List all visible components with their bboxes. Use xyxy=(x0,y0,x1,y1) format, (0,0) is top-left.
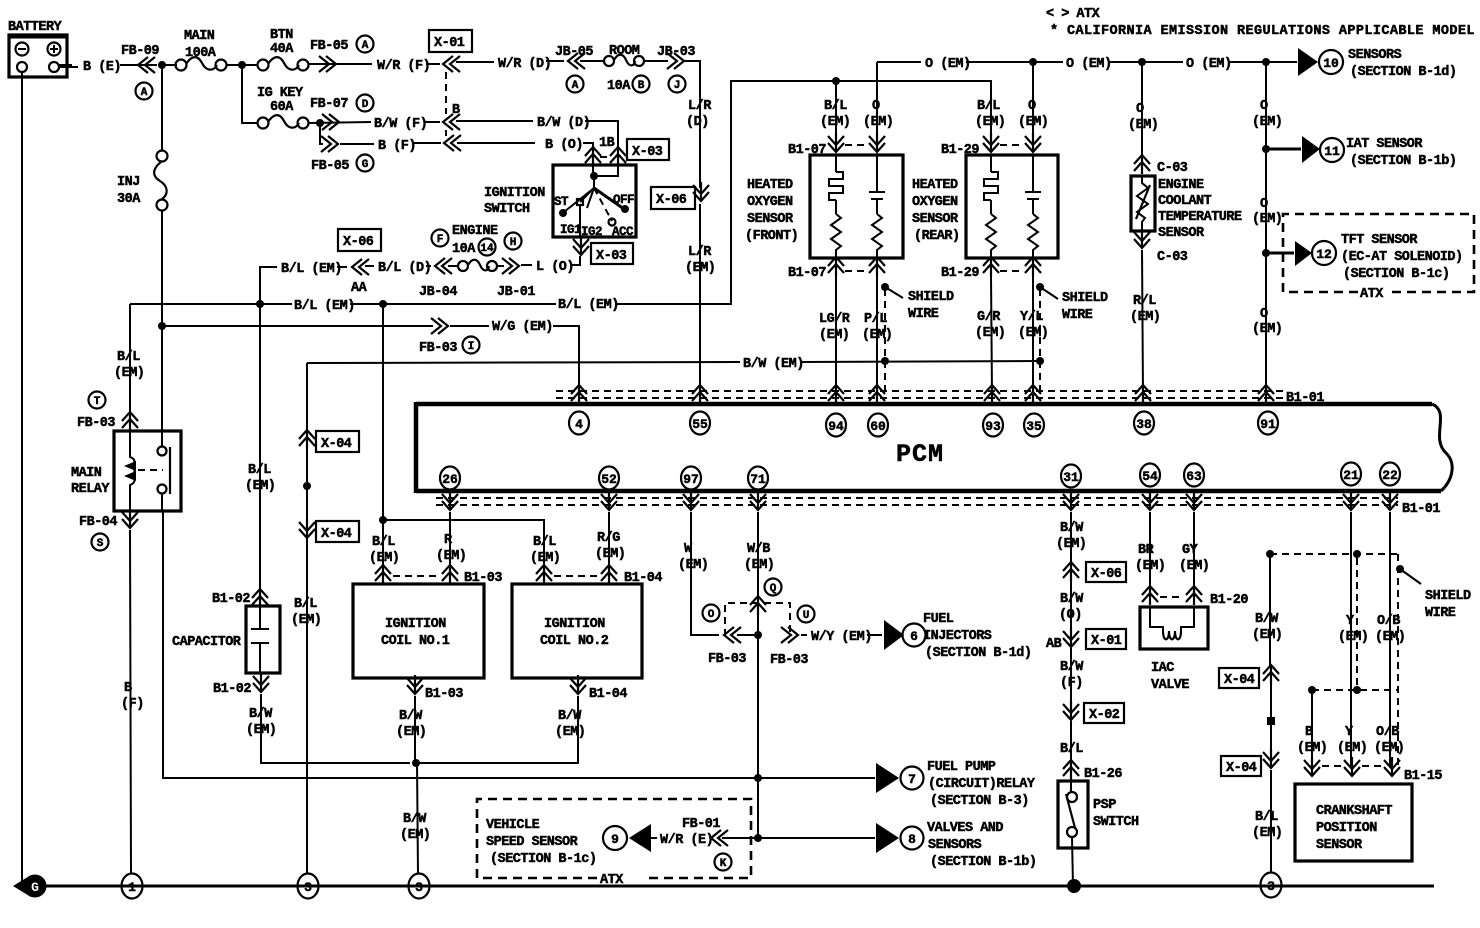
connector FB-03 arrow xyxy=(122,412,138,431)
pin 4 xyxy=(571,385,587,404)
svg-text:B1-07: B1-07 xyxy=(788,266,826,281)
svg-text:(EC-AT SOLENOID): (EC-AT SOLENOID) xyxy=(1341,250,1463,265)
PSP switch column xyxy=(1046,512,1139,893)
svg-text:IAC: IAC xyxy=(1151,661,1174,676)
svg-text:(EM): (EM) xyxy=(1135,559,1165,574)
svg-text:B/W: B/W xyxy=(1255,612,1279,627)
wire O (EM) to IAT junction xyxy=(1265,62,1267,149)
svg-text:94: 94 xyxy=(828,419,844,434)
svg-text:60: 60 xyxy=(870,419,886,434)
svg-text:< > ATX: < > ATX xyxy=(1046,7,1101,22)
svg-text:B/W: B/W xyxy=(558,709,582,724)
wire W (EM) pin 97 xyxy=(691,512,719,635)
wire O (EM) drop front xyxy=(876,62,878,141)
svg-text:GY: GY xyxy=(1182,543,1199,558)
svg-text:JB-04: JB-04 xyxy=(419,285,457,300)
svg-text:L/R: L/R xyxy=(688,245,712,260)
svg-text:52: 52 xyxy=(601,472,617,487)
svg-text:POSITION: POSITION xyxy=(1316,821,1377,836)
svg-text:6: 6 xyxy=(910,629,918,644)
svg-text:P/L: P/L xyxy=(864,312,887,327)
node A circle xyxy=(136,83,153,100)
wire LG/R (EM) to pin 94 xyxy=(835,276,837,394)
svg-text:L/R: L/R xyxy=(688,99,712,114)
svg-text:SENSOR: SENSOR xyxy=(747,212,794,227)
pin 38 xyxy=(1135,385,1151,404)
svg-text:COOLANT: COOLANT xyxy=(1158,194,1212,209)
svg-text:X-04: X-04 xyxy=(1224,673,1255,688)
svg-text:O: O xyxy=(1136,102,1144,117)
svg-text:FB-09: FB-09 xyxy=(121,44,159,59)
wire O (EM) to TFT junction xyxy=(1265,149,1267,253)
svg-text:WIRE: WIRE xyxy=(1425,606,1456,621)
svg-text:ACC: ACC xyxy=(612,225,634,239)
fuse BTN 40A xyxy=(258,60,269,71)
capacitor CAPACITOR xyxy=(172,304,410,763)
svg-text:PCM: PCM xyxy=(896,440,944,469)
svg-text:3: 3 xyxy=(415,880,423,895)
svg-text:B/W: B/W xyxy=(1060,521,1084,536)
connector X-01 pin xyxy=(443,56,460,72)
node O circle xyxy=(703,605,720,622)
sensor cell front xyxy=(869,155,885,214)
svg-text:54: 54 xyxy=(1142,469,1158,484)
crankshaft position sensor xyxy=(1295,512,1442,861)
connector X-03 top arrows xyxy=(585,147,601,166)
connector FB-09 xyxy=(138,57,155,73)
svg-text:3: 3 xyxy=(1267,879,1275,894)
svg-text:97: 97 xyxy=(683,472,699,487)
svg-text:X-04: X-04 xyxy=(321,437,352,452)
svg-text:(EM): (EM) xyxy=(1297,741,1327,756)
pin 26 xyxy=(440,467,460,490)
junction injector feed xyxy=(754,631,762,639)
fuel pump relay line xyxy=(754,635,1036,838)
svg-text:(EM): (EM) xyxy=(1128,118,1158,133)
svg-text:(EM): (EM) xyxy=(1252,115,1282,130)
heated oxygen sensor (rear) xyxy=(835,62,1108,394)
junction splice xyxy=(303,482,311,490)
svg-text:(EM): (EM) xyxy=(863,115,893,130)
junction coil 2 branch xyxy=(379,516,387,524)
svg-text:TEMPERATURE: TEMPERATURE xyxy=(1158,210,1242,225)
svg-text:B/L: B/L xyxy=(533,535,556,550)
svg-text:FB-03: FB-03 xyxy=(419,341,457,356)
junction IAT xyxy=(1262,145,1270,153)
svg-text:WIRE: WIRE xyxy=(908,307,939,322)
shield wire rear xyxy=(1036,283,1044,291)
relay contact xyxy=(138,469,163,471)
svg-text:(FRONT): (FRONT) xyxy=(745,229,798,244)
right shield drain B/W xyxy=(1219,550,1471,872)
svg-text:4: 4 xyxy=(575,417,583,432)
svg-text:INJ: INJ xyxy=(117,175,140,190)
svg-text:B: B xyxy=(1305,725,1313,740)
svg-text:B1-01: B1-01 xyxy=(1402,502,1440,517)
svg-text:B1-20: B1-20 xyxy=(1210,593,1248,608)
pin 31 xyxy=(1061,465,1081,488)
svg-text:B: B xyxy=(452,103,460,118)
svg-text:(EM): (EM) xyxy=(1252,212,1282,227)
svg-text:SWITCH: SWITCH xyxy=(1093,815,1139,830)
svg-text:(EM): (EM) xyxy=(246,723,276,738)
svg-text:91: 91 xyxy=(1260,417,1276,432)
svg-text:X-06: X-06 xyxy=(343,235,374,250)
engine fuse row: B/L (D) to L (O) xyxy=(260,224,633,305)
svg-text:B (E): B (E) xyxy=(83,60,121,75)
svg-text:D: D xyxy=(362,99,369,111)
connector JB-05 xyxy=(568,53,585,69)
svg-text:S: S xyxy=(97,538,104,550)
connector X-03 bottom xyxy=(573,236,589,255)
connector FB-01 xyxy=(711,830,728,846)
wire B/L (EM) row xyxy=(130,303,292,305)
svg-text:(EM): (EM) xyxy=(595,547,625,562)
svg-text:(EM): (EM) xyxy=(396,725,426,740)
svg-text:(EM): (EM) xyxy=(1018,326,1048,341)
TFT dashed box ATX xyxy=(1283,214,1474,292)
shield dashed bus lower xyxy=(1312,689,1398,691)
pin 55 xyxy=(692,385,708,404)
svg-text:1: 1 xyxy=(128,880,136,895)
svg-text:W/B: W/B xyxy=(747,542,770,557)
svg-text:J: J xyxy=(674,80,681,92)
svg-text:W/R (D): W/R (D) xyxy=(498,57,551,72)
wire W/R (F) xyxy=(309,63,372,65)
svg-text:(EM): (EM) xyxy=(1130,310,1160,325)
shield dashed O/B xyxy=(1397,554,1399,766)
wire W/R (D) xyxy=(456,61,494,63)
junction PSP ground xyxy=(1067,879,1081,893)
wire B/L (EM) to ground 3 xyxy=(1270,770,1272,872)
wire R (EM) pin 26 to coil 1 xyxy=(449,512,451,569)
svg-text:IGNITION: IGNITION xyxy=(484,186,545,201)
connector X-02 arrow xyxy=(1063,701,1079,720)
svg-text:BATTERY: BATTERY xyxy=(8,20,63,35)
ignition coil no.2 box xyxy=(512,584,642,678)
svg-text:O (EM): O (EM) xyxy=(925,57,971,72)
svg-text:B/W: B/W xyxy=(1060,592,1084,607)
main relay MAIN RELAY xyxy=(71,392,875,875)
svg-text:FB-05: FB-05 xyxy=(310,39,348,54)
fuse INJ 30A xyxy=(157,151,168,162)
wire to W/G junction and relay xyxy=(161,211,163,447)
svg-text:FB-01: FB-01 xyxy=(682,817,720,832)
fuse ENGINE 10A xyxy=(458,261,468,271)
svg-text:(EM): (EM) xyxy=(685,261,715,276)
svg-text:X-03: X-03 xyxy=(596,249,627,264)
svg-text:(EM): (EM) xyxy=(1018,115,1048,130)
connector B1-02 arrow xyxy=(252,589,268,608)
svg-text:21: 21 xyxy=(1343,468,1359,483)
svg-text:CRANKSHAFT: CRANKSHAFT xyxy=(1316,804,1392,819)
svg-text:O: O xyxy=(1260,197,1268,212)
svg-text:ATX: ATX xyxy=(1360,287,1384,302)
connector B1-03 arrows xyxy=(375,565,391,584)
node D circle xyxy=(357,95,374,112)
svg-text:7: 7 xyxy=(908,772,916,787)
connector B1-20 arrows xyxy=(1142,586,1158,605)
svg-text:OXYGEN: OXYGEN xyxy=(747,195,793,210)
svg-text:IAT SENSOR: IAT SENSOR xyxy=(1346,137,1423,152)
svg-text:(EM): (EM) xyxy=(744,558,774,573)
battery xyxy=(9,35,67,77)
svg-text:AB: AB xyxy=(1046,637,1062,652)
svg-text:G: G xyxy=(362,159,369,171)
pin 63 xyxy=(1184,464,1204,487)
wire B/W (EM) pin 31 xyxy=(1070,512,1072,566)
wire B/W (EM) to ground 3 xyxy=(417,763,418,874)
svg-text:(SECTION B-1c): (SECTION B-1c) xyxy=(490,852,596,867)
svg-text:(EM): (EM) xyxy=(1252,826,1282,841)
svg-text:JB-01: JB-01 xyxy=(497,285,535,300)
wire B/L (EM) riser xyxy=(260,267,277,305)
svg-text:OXYGEN: OXYGEN xyxy=(912,195,958,210)
svg-text:B: B xyxy=(638,80,645,92)
svg-text:ST: ST xyxy=(554,195,569,209)
svg-text:(SECTION B-1b): (SECTION B-1b) xyxy=(930,855,1036,870)
svg-text:AA: AA xyxy=(351,281,368,296)
svg-text:FUEL: FUEL xyxy=(923,612,954,627)
wire B/W (EM) to coil ground rail xyxy=(261,694,410,763)
svg-text:B/W (D): B/W (D) xyxy=(537,116,590,131)
svg-text:G: G xyxy=(31,880,39,895)
node A circle xyxy=(567,76,584,93)
wire to relay coil xyxy=(129,304,131,414)
shield pointer xyxy=(1396,565,1404,573)
switch internals xyxy=(593,165,618,176)
svg-text:(EM): (EM) xyxy=(820,115,850,130)
ground node 3 capacitor/shield xyxy=(298,874,319,899)
net O (EM) distribution xyxy=(877,48,1474,394)
svg-text:(EM): (EM) xyxy=(862,328,892,343)
svg-text:COIL NO.2: COIL NO.2 xyxy=(540,634,609,649)
svg-text:(EM): (EM) xyxy=(369,551,399,566)
svg-text:A: A xyxy=(362,40,369,52)
svg-text:(EM): (EM) xyxy=(975,115,1005,130)
svg-text:FB-03: FB-03 xyxy=(77,416,115,431)
junction W/B with relay output xyxy=(754,774,762,782)
wire B/L (EM) heater feed front xyxy=(832,77,840,85)
svg-text:Q: Q xyxy=(770,583,777,595)
wire GY (EM) pin 63 xyxy=(1193,512,1195,590)
IG KEY branch xyxy=(242,65,535,174)
svg-text:COIL NO.1: COIL NO.1 xyxy=(381,634,450,649)
svg-text:CAPACITOR: CAPACITOR xyxy=(172,635,242,650)
ECT box xyxy=(1131,176,1155,231)
svg-text:(SECTION B-1d): (SECTION B-1d) xyxy=(925,646,1031,661)
node K circle xyxy=(715,854,732,871)
svg-text:W/R (E): W/R (E) xyxy=(660,833,713,848)
svg-text:O: O xyxy=(1260,307,1268,322)
junction FB-09 node xyxy=(158,61,166,69)
svg-text:(D): (D) xyxy=(686,115,709,130)
connector X-04 arrow up xyxy=(299,430,315,449)
svg-text:TFT SENSOR: TFT SENSOR xyxy=(1341,233,1418,248)
svg-text:(EM): (EM) xyxy=(819,328,849,343)
svg-text:40A: 40A xyxy=(270,42,294,57)
arrow 7 FUEL PUMP xyxy=(876,763,899,793)
svg-text:O: O xyxy=(1260,99,1268,114)
heated oxygen sensor (front) xyxy=(745,62,954,394)
svg-text:ROOM: ROOM xyxy=(609,44,640,59)
svg-text:B/L: B/L xyxy=(824,99,847,114)
svg-text:MAIN: MAIN xyxy=(71,466,102,481)
svg-text:(REAR): (REAR) xyxy=(914,229,960,244)
svg-text:B (F): B (F) xyxy=(378,139,416,154)
svg-text:(SECTION B-3): (SECTION B-3) xyxy=(930,794,1029,809)
svg-text:W/Y (EM): W/Y (EM) xyxy=(811,630,872,645)
arrow 12 TFT SENSOR xyxy=(1266,252,1294,255)
svg-text:O/B: O/B xyxy=(1377,614,1400,629)
svg-text:93: 93 xyxy=(985,419,1001,434)
svg-text:SENSORS: SENSORS xyxy=(1348,48,1402,63)
svg-text:60A: 60A xyxy=(270,100,294,115)
svg-text:B/L: B/L xyxy=(1255,810,1278,825)
svg-text:B/W: B/W xyxy=(1060,660,1084,675)
connector X-01 pin B/W xyxy=(443,114,460,130)
arrow 9 to VSS xyxy=(603,826,627,850)
svg-text:RELAY: RELAY xyxy=(71,482,110,497)
svg-text:(EM): (EM) xyxy=(1338,630,1368,645)
wire Y (EM) pin 21 xyxy=(1350,512,1352,766)
svg-text:B1-26: B1-26 xyxy=(1084,767,1122,782)
svg-text:INJECTORS: INJECTORS xyxy=(923,629,992,644)
svg-text:B1-04: B1-04 xyxy=(589,687,627,702)
svg-text:(EM): (EM) xyxy=(1252,628,1282,643)
wire down to ground 3 xyxy=(306,363,308,874)
pin 94 xyxy=(828,385,844,404)
svg-text:ENGINE: ENGINE xyxy=(1158,178,1204,193)
svg-text:10A: 10A xyxy=(607,79,631,94)
svg-text:G/R: G/R xyxy=(977,310,1001,325)
dashed connector outline xyxy=(725,603,790,636)
svg-text:MAIN: MAIN xyxy=(184,29,215,44)
pin 91 xyxy=(1258,385,1274,404)
connector X-04 arrow down xyxy=(1263,749,1279,768)
svg-text:SHIELD: SHIELD xyxy=(1425,589,1471,604)
svg-text:B (O): B (O) xyxy=(545,138,583,153)
node I circle xyxy=(463,337,480,354)
wire B (EM) xyxy=(1311,690,1313,766)
wire Y/L (EM) to pin 35 xyxy=(1032,276,1034,394)
svg-text:O (EM): O (EM) xyxy=(1066,57,1112,72)
junction coil grounds xyxy=(412,759,420,767)
PCM bottom connector dashed seam B1-01 xyxy=(436,497,1398,499)
svg-text:(EM): (EM) xyxy=(678,558,708,573)
ground node 1 xyxy=(122,874,143,899)
wire R/G (EM) pin 52 to coil 2 xyxy=(608,512,610,569)
wire battery negative xyxy=(21,72,23,884)
wire L/R (EM) to PCM pin 55 xyxy=(699,204,701,394)
svg-text:(O): (O) xyxy=(1059,608,1082,623)
PCM top connector dashed seam B1-01 xyxy=(556,390,1283,392)
svg-text:SENSOR: SENSOR xyxy=(912,212,959,227)
fuse ROOM 10A xyxy=(604,56,614,66)
junction BTN branch xyxy=(238,61,246,69)
wire to X-04 lower xyxy=(1270,684,1272,750)
wire B/W (F) xyxy=(1070,648,1072,702)
engine coolant temperature sensor xyxy=(1128,62,1242,394)
svg-text:VALVE: VALVE xyxy=(1151,678,1189,693)
svg-text:(EM): (EM) xyxy=(400,828,430,843)
pin 35 xyxy=(1025,385,1041,404)
connector FB-03 right xyxy=(781,627,798,643)
svg-text:35: 35 xyxy=(1026,419,1042,434)
svg-text:HEATED: HEATED xyxy=(747,178,793,193)
svg-text:HEATED: HEATED xyxy=(912,178,958,193)
svg-text:X-06: X-06 xyxy=(656,193,687,208)
svg-text:R/L: R/L xyxy=(1133,294,1156,309)
shield dashed Y xyxy=(1356,558,1358,690)
svg-text:26: 26 xyxy=(442,472,458,487)
junction shield drains on B/W xyxy=(881,357,889,365)
svg-text:SENSOR: SENSOR xyxy=(1158,226,1205,241)
svg-text:SHIELD: SHIELD xyxy=(908,290,954,305)
PCM right wavy edge xyxy=(1432,404,1452,491)
svg-text:I: I xyxy=(468,341,475,353)
fuse IG KEY 60A xyxy=(258,118,269,129)
svg-text:BR: BR xyxy=(1138,543,1155,558)
svg-text:U: U xyxy=(803,610,810,622)
svg-text:B/L (EM): B/L (EM) xyxy=(281,262,342,277)
pin 21 xyxy=(1341,463,1361,486)
wire O (EM) to PCM pin 91 xyxy=(1265,253,1267,394)
node G circle xyxy=(357,155,374,172)
svg-text:100A: 100A xyxy=(185,46,217,61)
connector AA xyxy=(352,259,369,275)
svg-text:O: O xyxy=(872,99,880,114)
wire B/L from row to capacitor xyxy=(259,304,261,591)
connector C-03 arrow xyxy=(1134,155,1150,174)
svg-text:71: 71 xyxy=(750,472,766,487)
svg-text:FB-04: FB-04 xyxy=(79,515,117,530)
wire BR (EM) pin 54 xyxy=(1149,512,1151,590)
svg-text:O (EM): O (EM) xyxy=(1186,57,1232,72)
wire W/B (EM) pin 71 xyxy=(757,512,759,635)
node J circle xyxy=(669,76,686,93)
svg-text:C-03: C-03 xyxy=(1157,161,1188,176)
svg-text:B1-01: B1-01 xyxy=(1286,391,1324,406)
node A circle xyxy=(357,36,374,53)
svg-text:B1-15: B1-15 xyxy=(1404,769,1442,784)
svg-text:(EM): (EM) xyxy=(291,613,321,628)
pin 97 xyxy=(681,467,701,490)
wire from FB-09 down xyxy=(161,65,163,151)
svg-text:H: H xyxy=(510,237,517,249)
heater resistor front xyxy=(829,155,843,214)
svg-text:(F): (F) xyxy=(121,697,144,712)
X-01 dashed connector line xyxy=(445,72,447,136)
svg-text:(CIRCUIT)RELAY: (CIRCUIT)RELAY xyxy=(928,777,1036,792)
connector X-04 arrow xyxy=(1263,665,1279,684)
wire relay contact output xyxy=(162,494,875,778)
IAC valve xyxy=(1135,512,1248,693)
svg-text:B/L (D): B/L (D) xyxy=(378,261,431,276)
svg-text:T: T xyxy=(94,396,101,408)
wire B/L (EM) heater feed rear xyxy=(835,81,991,141)
svg-text:B/L (EM): B/L (EM) xyxy=(294,299,355,314)
svg-text:(SECTION B-1d): (SECTION B-1d) xyxy=(1350,65,1456,80)
svg-text:(EM): (EM) xyxy=(530,551,560,566)
pin 22 xyxy=(1380,463,1400,486)
svg-text:C-03: C-03 xyxy=(1157,250,1188,265)
pin 60 xyxy=(869,385,885,404)
svg-text:R/G: R/G xyxy=(597,531,620,546)
junction TFT xyxy=(1262,249,1270,257)
arrow 8 VALVES AND SENSORS xyxy=(876,823,899,853)
pin 71 xyxy=(748,467,768,490)
